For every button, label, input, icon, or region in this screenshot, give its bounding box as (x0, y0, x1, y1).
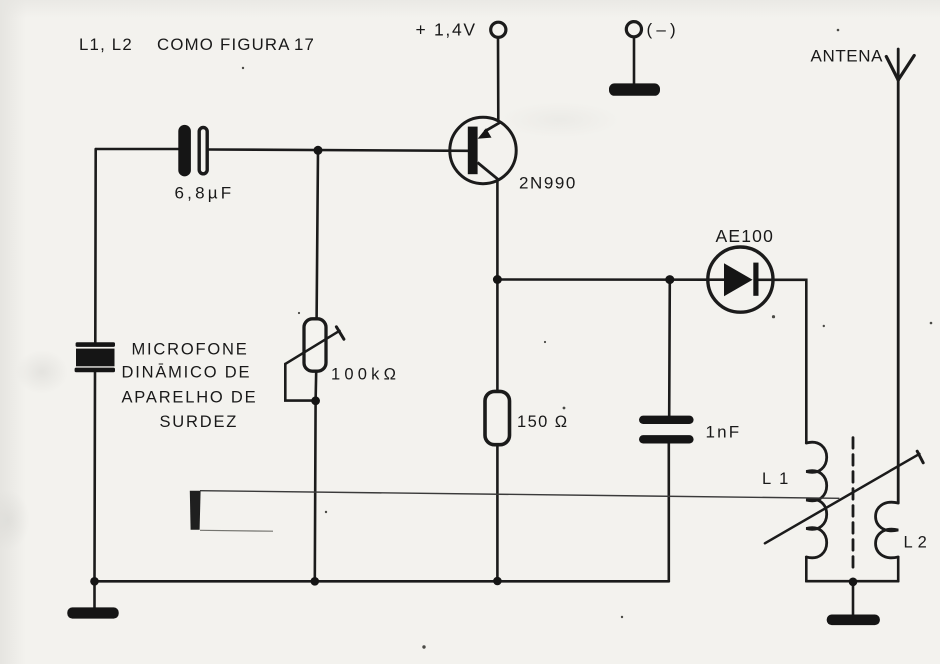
svg-text:APARELHO DE: APARELHO DE (122, 389, 258, 407)
svg-text:DINĀMICO DE: DINĀMICO DE (122, 364, 252, 382)
svg-text:ANTENA: ANTENA (811, 47, 884, 66)
svg-text:150 Ω: 150 Ω (517, 413, 568, 431)
svg-text:+ 1,4V: + 1,4V (416, 20, 477, 40)
svg-text:100kΩ: 100kΩ (331, 366, 400, 384)
svg-text:(–): (–) (647, 20, 680, 39)
svg-text:AE100: AE100 (716, 226, 775, 246)
svg-text:SURDEZ: SURDEZ (160, 413, 239, 431)
svg-text:L1, L2COMOFIGURA17: L1, L2COMOFIGURA17 (79, 35, 315, 54)
svg-text:1nF: 1nF (706, 423, 742, 442)
svg-text:6,8µF: 6,8µF (175, 184, 235, 203)
svg-text:L2: L2 (904, 534, 932, 552)
svg-text:MICROFONE: MICROFONE (132, 341, 249, 359)
svg-text:2N990: 2N990 (519, 174, 577, 193)
svg-text:L1: L1 (762, 470, 796, 488)
